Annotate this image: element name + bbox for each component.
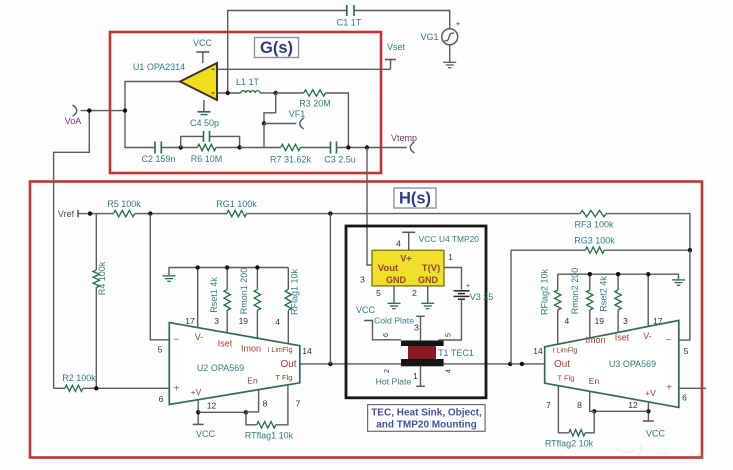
G(s) label box (255, 38, 299, 58)
svg-text:19: 19 (239, 316, 249, 326)
junction VoA feedback (123, 108, 127, 112)
wire output riser to C1 (228, 11, 347, 94)
svg-text:4: 4 (565, 316, 570, 326)
svg-text:Hot Plate: Hot Plate (376, 377, 412, 387)
wire U2 output to U3 (300, 362, 545, 366)
capacitor C2 159n (141, 142, 175, 165)
svg-text:Rmon1 200: Rmon1 200 (239, 268, 249, 315)
svg-text:Vset: Vset (387, 42, 406, 52)
VCC above U4 (402, 232, 436, 250)
svg-text:RTflag1 10k: RTflag1 10k (245, 431, 294, 441)
resistor RG1 100k (216, 199, 257, 217)
wire U3 pin8 (590, 391, 595, 411)
svg-text:VoA: VoA (65, 116, 82, 126)
svg-text:En: En (589, 376, 600, 386)
svg-text:V3 25: V3 25 (470, 292, 494, 302)
svg-text:19: 19 (595, 316, 605, 326)
wire RG1 to RF3 (247, 211, 581, 215)
node Vref terminal (58, 209, 81, 219)
svg-text:3: 3 (414, 323, 419, 333)
svg-text:VCC: VCC (419, 234, 437, 244)
resistor Rset1 4k (209, 265, 230, 333)
svg-text:R3 20M: R3 20M (299, 99, 331, 109)
svg-text:VCC: VCC (193, 38, 213, 48)
wire to VF1 probe (262, 93, 297, 148)
op-amp U2 OPA569 (169, 323, 299, 405)
svg-text:4: 4 (396, 239, 401, 249)
IC U4 TMP20 body (372, 250, 444, 286)
wire U2 pin12 to pin8 node (198, 410, 248, 414)
node VF1 terminal (289, 109, 306, 129)
battery V3 25 (454, 283, 494, 302)
wire U2 pin17 (196, 265, 200, 328)
svg-text:1: 1 (448, 252, 453, 262)
svg-text:Out: Out (554, 359, 570, 370)
svg-text:G(s): G(s) (260, 39, 293, 57)
ground / C4 under U1 (190, 100, 219, 128)
node VoA terminal (65, 105, 82, 126)
svg-text:VCC: VCC (196, 429, 216, 439)
wire C2 to R6 (161, 145, 197, 149)
svg-text:and TMP20 Mounting: and TMP20 Mounting (376, 420, 477, 431)
resistor RF3 100k (574, 210, 614, 229)
svg-text:H(s): H(s) (399, 190, 431, 208)
wire battery to TEC pin5 (439, 299, 462, 340)
svg-text:12: 12 (207, 401, 217, 411)
VCC supply of U1 (193, 38, 213, 63)
svg-text:2: 2 (384, 369, 391, 373)
svg-text:8: 8 (577, 400, 582, 410)
svg-text:+: + (466, 283, 470, 290)
svg-text:7: 7 (296, 399, 301, 409)
ground under VG1 (443, 45, 456, 68)
wire U3 pin17 (646, 272, 650, 327)
U2 internal pin labels (174, 332, 297, 397)
junction at VoA (87, 108, 91, 112)
wire U1 output to L1 (217, 91, 241, 95)
wire C1 to VG1 (354, 11, 450, 29)
svg-text:RFlag2 10k: RFlag2 10k (540, 268, 550, 315)
svg-text:+: + (666, 383, 672, 394)
wire VoA node to op-amp and C2 network (54, 82, 180, 389)
wire Vref bus (81, 211, 113, 215)
svg-text:R4 100k: R4 100k (97, 261, 107, 295)
capacitor C3 2.5u (324, 142, 356, 165)
svg-text:L1 1T: L1 1T (236, 77, 260, 87)
resistor RFlag1 10k (285, 268, 299, 344)
svg-text:U4 TMP20: U4 TMP20 (439, 234, 479, 244)
svg-text:1: 1 (413, 371, 418, 381)
U4 ground pin 5 (388, 286, 401, 309)
svg-text:T Flg: T Flg (276, 373, 293, 382)
svg-text:Imon: Imon (241, 344, 261, 354)
svg-text:R5 100k: R5 100k (107, 199, 141, 209)
resistor Rmon2 200 (570, 268, 593, 338)
svg-text:V+: V+ (400, 254, 411, 264)
svg-text:RFlag1 10k: RFlag1 10k (290, 268, 300, 315)
ground above U2 (163, 268, 289, 282)
VCC to TEC pin6 (356, 305, 401, 340)
resistor R5 100k (107, 199, 141, 217)
node Vset terminal (385, 42, 406, 69)
wire U2 pin12 to VCC (193, 400, 216, 439)
resistor R3 20M (276, 90, 349, 148)
resistor R4 100k (93, 214, 107, 389)
wire U1 +input to Vset (217, 68, 391, 70)
svg-text:Vref: Vref (58, 209, 75, 219)
svg-text:Iset: Iset (615, 333, 630, 343)
U4 label (439, 234, 479, 244)
H(s) label box (394, 188, 436, 208)
svg-text:V-: V- (643, 331, 652, 341)
op-amp U3 OPA569 (545, 320, 679, 407)
resistor RFlag2 10k (540, 268, 561, 344)
G(s) feedback-block red border box (110, 32, 381, 173)
svg-text:V-: V- (195, 332, 204, 342)
svg-text:C4 50p: C4 50p (190, 118, 219, 128)
resistor RG3 100k (511, 236, 692, 254)
svg-text:6: 6 (682, 393, 687, 403)
svg-text:Rset2 4k: Rset2 4k (599, 276, 609, 312)
wire R6 to R7 (240, 147, 281, 149)
svg-text:C3 2.5u: C3 2.5u (324, 155, 356, 165)
svg-text:Rmon2 200: Rmon2 200 (570, 268, 580, 315)
inductor L1 1T (236, 77, 276, 93)
resistor RTflag1 10k (245, 385, 294, 441)
wire RG3 down to U3 output (510, 250, 512, 364)
svg-text:U3 OPA569: U3 OPA569 (609, 359, 656, 369)
svg-text:−: − (666, 335, 672, 346)
op-amp U1 OPA2314 (133, 62, 217, 100)
U3 pin numbers (533, 316, 688, 410)
thermoelectric module T1 TEC1 (401, 341, 474, 367)
svg-text:T(V): T(V) (422, 263, 440, 274)
junction L1-R3-VF1 (274, 91, 278, 95)
svg-text:+: + (456, 20, 461, 29)
svg-text:6: 6 (159, 394, 164, 404)
svg-text:VCC: VCC (646, 429, 666, 439)
wire C3 to Vtemp (337, 145, 407, 149)
wire U2 pin8 (246, 390, 259, 412)
svg-text:17: 17 (185, 316, 195, 326)
TEC mounting black box (346, 226, 486, 398)
wire R5-RG1 node to U2 pin5 (150, 214, 169, 340)
resistor RTflag2 10k (545, 386, 594, 449)
svg-text:7: 7 (546, 400, 551, 410)
svg-text:U1 OPA2314: U1 OPA2314 (133, 62, 185, 72)
source VG1 (420, 20, 460, 45)
wire U3 pin6 (679, 387, 706, 389)
svg-text:+V: +V (645, 388, 656, 398)
wire RF3-RG3 node to U3 pin5 (679, 250, 690, 340)
svg-text:14: 14 (533, 346, 543, 356)
svg-text:Vtemp: Vtemp (391, 133, 417, 143)
svg-text:I LimFlg: I LimFlg (268, 347, 293, 354)
U4 pin numbers (360, 239, 453, 299)
svg-text:4: 4 (275, 317, 280, 327)
svg-text:Imon: Imon (585, 335, 605, 345)
svg-text:5: 5 (158, 345, 163, 355)
svg-text:3: 3 (360, 275, 365, 285)
wire riser RG1 node to output (329, 214, 331, 364)
svg-text:T Flg: T Flg (558, 374, 575, 383)
svg-text:VCC: VCC (356, 305, 376, 315)
svg-text:Vout: Vout (378, 263, 399, 274)
svg-text:5: 5 (446, 333, 453, 337)
U4 ground pin 2 (421, 286, 434, 309)
svg-text:5: 5 (684, 346, 689, 356)
svg-text:+: + (174, 384, 180, 395)
svg-text:I LimFlg: I LimFlg (553, 348, 578, 355)
svg-text:12: 12 (628, 400, 638, 410)
mounting note box (368, 405, 486, 432)
watermark (615, 443, 704, 458)
svg-text:−: − (174, 334, 180, 345)
capacitor C1 1T (337, 5, 362, 28)
wire RF3 corner down (606, 214, 690, 251)
svg-text:6: 6 (383, 333, 390, 337)
svg-text:C2 159n: C2 159n (141, 154, 175, 164)
svg-text:Iset: Iset (218, 339, 233, 349)
svg-text:Cold Plate: Cold Plate (374, 316, 414, 326)
svg-text:+V: +V (191, 387, 202, 397)
svg-text:4: 4 (446, 369, 453, 373)
wire U4 T(V) to battery (444, 268, 462, 290)
junction R5-RG1 (135, 211, 227, 215)
svg-text:RG1 100k: RG1 100k (216, 199, 257, 209)
U2 pin numbers (158, 316, 312, 411)
resistor Rmon1 200 (239, 265, 261, 338)
U3 internal pin labels (553, 331, 673, 398)
H(s) plant-block red border box (30, 182, 702, 458)
wire U3 pin12 to VCC (643, 402, 666, 439)
node Cold Plate terminal (374, 316, 425, 341)
svg-text:U2 OPA569: U2 OPA569 (197, 363, 244, 373)
svg-text:14: 14 (302, 346, 312, 356)
label pin 3 cold (414, 323, 419, 333)
svg-text:TEC, Heat Sink, Object,: TEC, Heat Sink, Object, (371, 407, 482, 418)
svg-text:RF3 100k: RF3 100k (574, 220, 614, 230)
wire Vtemp riser to TMP20 (367, 148, 372, 266)
resistor R7 31.62k (270, 144, 331, 164)
resistor R2 100k (54, 373, 170, 392)
svg-text:R2 100k: R2 100k (62, 373, 96, 383)
svg-text:En: En (247, 376, 258, 386)
svg-text:2: 2 (412, 288, 417, 298)
svg-text:VG1: VG1 (420, 32, 438, 42)
capacitor C4 parallel loop (181, 131, 242, 150)
ground above U3 (558, 274, 685, 285)
svg-text:5: 5 (376, 288, 381, 298)
svg-text:GND: GND (386, 275, 407, 285)
svg-text:R6 10M: R6 10M (191, 154, 223, 164)
node Vtemp terminal (391, 133, 417, 153)
svg-text:RTflag2 10k: RTflag2 10k (545, 439, 594, 449)
node Hot Plate terminal (376, 366, 425, 386)
svg-text:Rset1 4k: Rset1 4k (209, 277, 219, 313)
svg-text:GND: GND (418, 275, 439, 285)
svg-text:3: 3 (214, 316, 219, 326)
svg-text:Out: Out (280, 359, 296, 370)
resistor Rset2 4k (599, 272, 622, 333)
svg-text:R7 31.62k: R7 31.62k (270, 155, 312, 165)
svg-text:C1 1T: C1 1T (337, 18, 362, 28)
svg-text:3: 3 (623, 316, 628, 326)
resistor R6 10M (191, 144, 240, 164)
TEC rotated pin labels (383, 333, 453, 373)
svg-text:VF1: VF1 (289, 109, 306, 119)
wire U3 pin12 to pin8 node (592, 409, 648, 413)
svg-text:RG3 100k: RG3 100k (574, 236, 615, 246)
svg-text:T1 TEC1: T1 TEC1 (438, 348, 474, 358)
svg-text:8: 8 (263, 399, 268, 409)
svg-text:17: 17 (653, 316, 663, 326)
